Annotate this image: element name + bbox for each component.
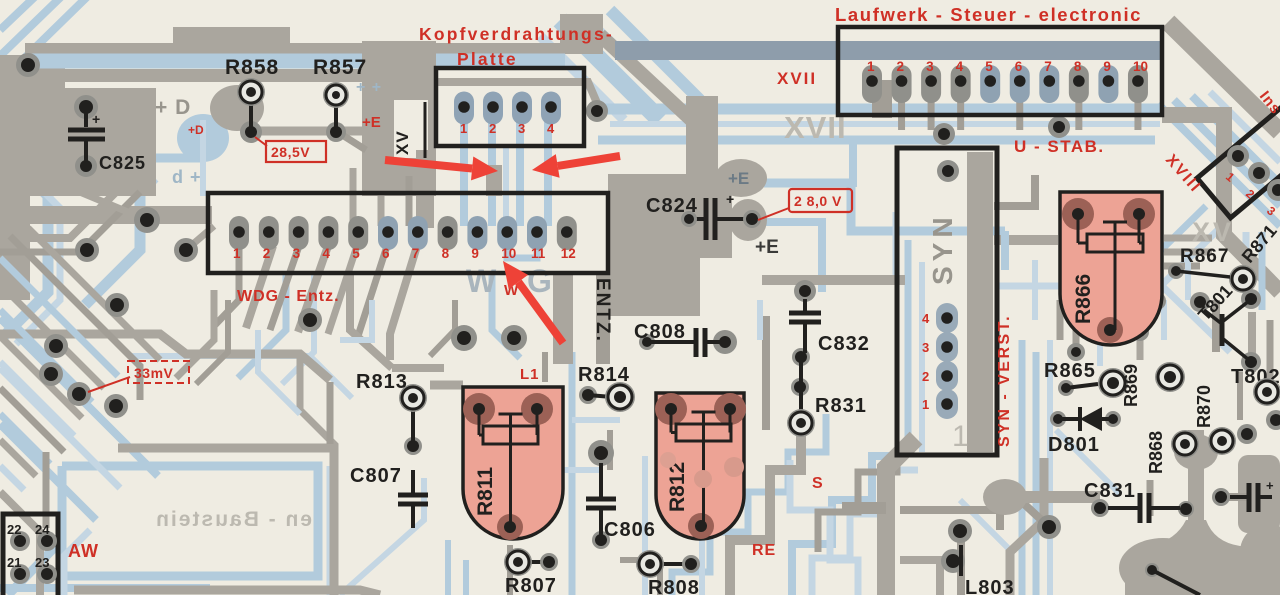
wire head-net 2 — [488, 122, 496, 226]
wire — [563, 467, 600, 473]
pad C825 top — [74, 95, 98, 119]
net bus 2 — [598, 136, 1155, 145]
svg-text:R808: R808 — [648, 577, 700, 595]
svg-text:5: 5 — [985, 59, 993, 74]
pad C825 bottom — [75, 155, 97, 177]
wire C831 net — [1005, 491, 1100, 503]
pad — [1148, 292, 1166, 310]
connector pad WDG 6 — [378, 216, 398, 250]
wire — [1164, 263, 1200, 270]
pad R814 lead — [579, 386, 597, 404]
wire — [1212, 300, 1220, 352]
wire — [757, 300, 763, 340]
connector XVIII — [1197, 102, 1280, 218]
connector pad WDG 8 — [438, 216, 458, 250]
capacitor edge-right — [1230, 495, 1247, 499]
svg-text:SYN - VERST.: SYN - VERST. — [996, 314, 1013, 447]
svg-text:11: 11 — [531, 246, 546, 261]
wire — [28, 228, 160, 360]
wire WDG lead 6 — [358, 246, 387, 336]
svg-text:1: 1 — [952, 420, 969, 453]
connector pad LW 3 — [921, 65, 941, 103]
pad R865 — [1098, 368, 1128, 398]
wire — [572, 417, 620, 423]
svg-text:R869: R869 — [1121, 364, 1141, 407]
copper blob C825 — [210, 85, 264, 131]
svg-text:12: 12 — [561, 246, 576, 261]
svg-text:1: 1 — [233, 246, 241, 261]
svg-text:XV: XV — [1192, 217, 1234, 247]
svg-text:C807: C807 — [350, 465, 402, 487]
svg-text:XVII: XVII — [777, 69, 817, 88]
copper pour C824 — [608, 174, 732, 316]
pad C808 left — [639, 334, 655, 350]
wire — [998, 286, 1230, 352]
pad — [1190, 292, 1210, 312]
wire — [0, 284, 104, 388]
pad — [75, 238, 99, 262]
wire — [764, 222, 822, 292]
svg-text:R868: R868 — [1146, 431, 1166, 474]
wire U-link — [507, 236, 537, 258]
pad R867 ring — [1229, 265, 1257, 293]
connector pad 23 — [37, 564, 57, 584]
wire stub — [872, 80, 892, 118]
wire — [569, 352, 576, 595]
capacitor C831 — [1108, 506, 1138, 510]
wire — [1174, 100, 1280, 206]
svg-text:7: 7 — [412, 246, 420, 261]
pad — [1131, 323, 1149, 341]
wire — [0, 0, 66, 56]
connector pad WDG 9 — [467, 216, 487, 250]
wire — [0, 0, 42, 30]
svg-text:3: 3 — [293, 246, 301, 261]
wire — [560, 20, 660, 120]
pad — [1266, 410, 1280, 430]
connector pad LW 5 — [980, 65, 1000, 103]
svg-text:28,5V: 28,5V — [271, 144, 310, 160]
pad C806 top — [588, 440, 614, 466]
svg-text:C831: C831 — [1084, 480, 1136, 502]
connector pad WDG 12 — [557, 216, 577, 250]
svg-text:C824: C824 — [646, 195, 698, 217]
potentiometer R866 — [1060, 192, 1162, 345]
svg-text:C825: C825 — [99, 153, 146, 173]
svg-text:1: 1 — [922, 397, 929, 412]
capacitor C807 — [411, 470, 415, 494]
svg-text:R867: R867 — [1180, 246, 1229, 267]
svg-text:3: 3 — [926, 59, 934, 74]
resistor R808 — [660, 562, 691, 566]
wire trunk x886 — [886, 438, 916, 595]
svg-text:24: 24 — [35, 522, 50, 537]
wire lead — [1152, 570, 1200, 595]
wire — [672, 414, 826, 595]
wire — [0, 368, 120, 488]
pad U-STAB 2 — [1048, 116, 1070, 138]
pad R808 — [636, 550, 664, 578]
wire — [1032, 260, 1038, 320]
wire — [130, 356, 352, 398]
svg-text:+: + — [92, 111, 100, 127]
module SYN — [897, 148, 997, 455]
svg-text:R857: R857 — [313, 56, 367, 79]
pad — [67, 382, 91, 406]
svg-text:33mV: 33mV — [134, 365, 174, 381]
connector Kopfverdrahtungs-Platte — [436, 68, 584, 146]
svg-text:10: 10 — [1133, 59, 1148, 74]
svg-text:L1: L1 — [520, 366, 540, 383]
pad C831 left — [1091, 499, 1109, 517]
red arrow 1 — [385, 160, 472, 169]
voltage callout 28,5V — [266, 141, 326, 162]
connector pad WDG 10 — [497, 216, 517, 250]
svg-text:AW: AW — [68, 541, 99, 561]
svg-text:+E: +E — [362, 114, 381, 131]
wire — [542, 352, 548, 382]
svg-text:8: 8 — [442, 246, 450, 261]
capacitor C825 — [84, 107, 88, 127]
svg-text:4: 4 — [322, 246, 330, 261]
svg-text:10: 10 — [501, 246, 516, 261]
wire — [905, 240, 912, 452]
svg-text:3: 3 — [922, 340, 929, 355]
wire — [0, 466, 24, 490]
pad — [1089, 302, 1107, 320]
svg-text:R814: R814 — [578, 364, 630, 386]
svg-text:3: 3 — [518, 121, 525, 136]
pad C832 bottom — [792, 348, 810, 366]
wire — [1102, 206, 1206, 308]
wire — [258, 330, 300, 414]
wire — [327, 382, 334, 444]
wire — [711, 249, 713, 251]
wire — [0, 148, 48, 340]
wire — [0, 318, 158, 476]
wire — [350, 168, 357, 226]
copper pour C831 — [699, 231, 701, 233]
connector pad X18-1 — [1227, 145, 1249, 167]
svg-text:WDG - Entz.: WDG - Entz. — [237, 288, 340, 305]
wire — [818, 456, 897, 552]
wire stub x886 — [842, 502, 886, 514]
pad R857 lead — [326, 122, 346, 142]
svg-text:+: + — [1266, 478, 1274, 493]
svg-text:+: + — [726, 191, 734, 207]
net bus 1 — [598, 104, 1164, 115]
wire — [994, 175, 1035, 206]
pad R869 ring — [1155, 362, 1185, 392]
wire plane outline — [62, 466, 318, 576]
wire — [0, 258, 118, 376]
wire — [0, 440, 36, 476]
wire — [1126, 220, 1228, 320]
wire — [340, 478, 424, 595]
wire — [0, 334, 330, 380]
transistor T801 — [1220, 314, 1225, 346]
svg-text:21: 21 — [7, 555, 21, 570]
capacitor C806 — [599, 463, 603, 498]
wire — [1073, 320, 1080, 352]
wire — [300, 354, 336, 446]
pad — [1037, 515, 1061, 539]
svg-text:R812: R812 — [666, 462, 689, 512]
pad T802 — [1253, 378, 1280, 406]
svg-text:R865: R865 — [1044, 360, 1096, 382]
connector pad 21 — [10, 564, 30, 584]
wire net left 2 — [0, 169, 148, 175]
svg-text:en - Baustein: en - Baustein — [154, 508, 312, 531]
wire — [64, 530, 90, 595]
wire — [1259, 232, 1266, 310]
pad C806 bottom — [592, 531, 610, 549]
pad — [933, 123, 955, 145]
svg-text:Laufwerk - Steuer - electronic: Laufwerk - Steuer - electronic — [835, 4, 1142, 25]
pad — [1212, 488, 1230, 506]
wire — [507, 545, 513, 595]
svg-text:2: 2 — [897, 59, 905, 74]
inductor L803 lead — [959, 545, 963, 576]
pad — [105, 293, 129, 317]
svg-text:S: S — [812, 475, 823, 492]
pad D801 right — [1105, 411, 1121, 427]
copper pour bottom-right — [1125, 520, 1280, 595]
connector pad WDG 5 — [348, 216, 368, 250]
wire — [1022, 502, 1049, 527]
pad C831 right — [1178, 501, 1194, 517]
pad — [1133, 312, 1153, 332]
svg-text:+ D: + D — [155, 96, 191, 119]
pads under R812 silkscreen — [724, 457, 744, 477]
svg-text:R858: R858 — [225, 56, 279, 79]
connector pad LW 2 — [892, 65, 912, 103]
wire — [492, 272, 520, 358]
wire — [1210, 92, 1280, 162]
red arrow 2 — [558, 156, 620, 166]
pad T801 e — [1241, 352, 1261, 372]
pad — [39, 362, 63, 386]
wire — [642, 456, 648, 595]
wire trunk arrows — [486, 165, 502, 196]
bus smoky band — [615, 41, 1160, 60]
wire — [0, 0, 90, 82]
connector pad LW 8 — [1069, 65, 1089, 103]
svg-text:d +: d + — [172, 167, 202, 187]
pad R807 b — [540, 553, 558, 571]
pad SYN 3 — [936, 332, 958, 362]
svg-text:R866: R866 — [1072, 274, 1095, 324]
connector pad WDG 2 — [259, 216, 279, 250]
wire — [282, 272, 314, 384]
wire — [1057, 300, 1064, 340]
wire — [1137, 330, 1144, 360]
wire — [792, 456, 900, 595]
wire — [463, 560, 469, 595]
connector pad LW 6 — [1010, 65, 1030, 103]
pad SYN 1 — [936, 389, 958, 419]
potentiometer R812 — [656, 393, 744, 539]
wire blue drop left — [85, 190, 140, 305]
wire — [327, 466, 334, 595]
pad SYN 2 — [936, 361, 958, 391]
connector pad head 2 — [483, 92, 503, 125]
wire — [196, 300, 228, 384]
svg-text:2: 2 — [922, 369, 929, 384]
wire — [350, 272, 392, 368]
pad SYN 4 — [936, 303, 958, 333]
wire trunk TR — [1162, 115, 1280, 292]
bus slab XV — [362, 41, 436, 196]
connector pad WDG 1 — [229, 216, 249, 250]
wire — [1243, 232, 1250, 300]
wire — [994, 235, 1058, 245]
pad ring — [1171, 430, 1199, 458]
connector pad head 1 — [454, 92, 474, 125]
wire — [238, 272, 286, 378]
wire — [445, 540, 451, 595]
svg-text:R813: R813 — [356, 371, 408, 393]
wire — [0, 192, 140, 252]
red arrow 3 — [518, 282, 563, 343]
svg-text:23: 23 — [35, 555, 49, 570]
connector pad X18-3 — [1267, 179, 1280, 201]
wire — [336, 131, 366, 150]
wire WDG lead 7 — [390, 246, 417, 360]
svg-text:C832: C832 — [818, 333, 870, 355]
svg-text:+E: +E — [755, 237, 779, 258]
resistor R814 — [588, 395, 612, 397]
pad — [174, 238, 198, 262]
resistor R858 — [249, 104, 253, 128]
svg-text:+E: +E — [728, 169, 749, 188]
wire mid bus — [762, 275, 905, 285]
pad — [44, 334, 68, 358]
wire WDG lead 3 — [270, 246, 299, 330]
connector pad LW 1 — [862, 65, 882, 103]
svg-text:1: 1 — [867, 59, 875, 74]
pad ring 2 — [1208, 427, 1236, 455]
wire pad drop — [928, 100, 935, 130]
wire — [960, 500, 1010, 595]
wire — [74, 590, 380, 595]
node +E lower — [729, 199, 767, 241]
net bus 3 — [610, 121, 1160, 127]
pad C808 right — [713, 330, 737, 354]
wire — [0, 362, 74, 436]
wire — [1033, 352, 1040, 595]
potentiometer R811 — [463, 387, 563, 539]
bus strip C — [25, 69, 370, 82]
svg-text:6: 6 — [382, 246, 390, 261]
wire — [186, 226, 214, 250]
pad R813 — [399, 384, 427, 412]
pad R867 lead — [1168, 263, 1184, 279]
pad — [1067, 343, 1085, 361]
wire — [812, 470, 918, 595]
pad R814 — [605, 382, 635, 412]
connector AW — [3, 514, 58, 595]
wire blue inlay — [25, 54, 565, 69]
wire pad drop — [1075, 100, 1082, 130]
pad R831 top — [791, 378, 809, 396]
connector pad X18-2 — [1248, 162, 1270, 184]
wire WDG lead 5 — [328, 246, 357, 334]
copper pour left — [0, 55, 156, 300]
svg-text:+D: +D — [188, 123, 204, 137]
connector pad LW 4 — [951, 65, 971, 103]
pad — [134, 207, 160, 233]
wire head-net 3 — [516, 122, 524, 226]
pad R865 lead — [1058, 380, 1074, 396]
wire — [1164, 235, 1212, 242]
svg-text:2 8,0 V: 2 8,0 V — [794, 193, 842, 209]
wire — [0, 414, 50, 464]
wire — [607, 430, 613, 470]
svg-text:RE: RE — [752, 542, 776, 559]
svg-text:6: 6 — [1015, 59, 1023, 74]
wire — [43, 452, 50, 528]
svg-text:R870: R870 — [1194, 385, 1214, 428]
pad — [104, 394, 128, 418]
wire — [1019, 340, 1026, 595]
connector pad WDG 7 — [408, 216, 428, 250]
connector pad LW 9 — [1098, 65, 1118, 103]
via blob — [177, 114, 229, 162]
wire — [1226, 493, 1250, 501]
wire trunk — [416, 150, 434, 228]
wire — [1161, 300, 1167, 340]
pad TL — [16, 53, 40, 77]
wire — [1164, 249, 1212, 256]
connector pad LW 7 — [1039, 65, 1059, 103]
connector pad LW 10 — [1128, 65, 1148, 103]
wire — [1192, 96, 1280, 184]
connector pad WDG 4 — [318, 216, 338, 250]
svg-text:Platte: Platte — [457, 49, 518, 69]
wire head-net 4 — [544, 122, 552, 226]
pad T801 c — [1241, 289, 1261, 309]
connector WDG-Entz — [208, 193, 608, 273]
bus strip B — [25, 43, 603, 54]
wire stub blue — [849, 143, 857, 187]
wire — [430, 300, 455, 356]
wire — [200, 120, 206, 196]
svg-text:9: 9 — [1103, 59, 1111, 74]
svg-text:5: 5 — [352, 246, 360, 261]
svg-text:22: 22 — [7, 522, 21, 537]
wire strip — [553, 272, 573, 364]
wire — [592, 24, 688, 116]
wire — [1001, 231, 1009, 270]
resistor R867 — [1176, 271, 1230, 277]
pad R808 b — [682, 555, 700, 573]
wire pad drop — [1016, 100, 1023, 130]
connector pad head 4 — [541, 92, 561, 125]
wire — [762, 316, 770, 430]
pad — [501, 325, 527, 351]
wire — [0, 584, 210, 592]
wire — [1248, 312, 1256, 372]
svg-text:W: W — [466, 263, 498, 299]
node +E upper — [715, 159, 767, 197]
wire — [1047, 340, 1053, 595]
wire — [957, 534, 965, 595]
wire diag TR — [1168, 22, 1280, 132]
bus tab — [173, 27, 290, 44]
wire — [699, 540, 705, 595]
pad R858 lead — [240, 121, 262, 143]
